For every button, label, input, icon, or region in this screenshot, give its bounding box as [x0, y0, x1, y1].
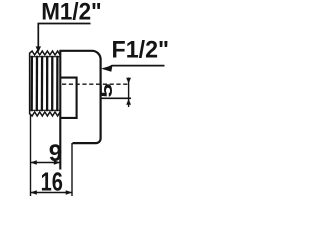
extension line right of 16 dim	[71, 143, 73, 196]
thread root line bottom	[30, 109, 60, 111]
arrowhead of F1/2" leader	[101, 65, 113, 72]
arrowhead right of dim 16	[66, 190, 73, 195]
centerline (dashed)	[62, 83, 130, 85]
thread root line top	[30, 56, 60, 58]
body outline: top edge, rounded top-right corner, right edge, rounded bottom-right corner, bottom edge	[60, 51, 101, 143]
thread flank lines	[32, 56, 58, 111]
arrowhead left of dim 9	[30, 160, 37, 165]
svg-text:F1/2": F1/2"	[112, 37, 170, 64]
dimension line 16	[31, 192, 73, 194]
body left edge / extension line down	[59, 50, 61, 170]
arrowhead of M1/2" leader	[36, 46, 41, 52]
arrowhead top of dim 5	[126, 78, 131, 84]
leader line for M1/2"	[38, 24, 90, 48]
bore bottom extension line	[101, 97, 131, 99]
dimension line 9	[31, 162, 61, 164]
male thread left end face	[29, 53, 31, 115]
arrowhead right of dim 9	[54, 160, 61, 165]
arrowhead bottom of dim 5	[126, 99, 131, 105]
leader line for F1/2"	[107, 66, 165, 69]
extension line left (thread end face)	[30, 115, 32, 196]
dimension line 5 (vertical)	[128, 78, 130, 108]
thread crest zigzag top	[30, 51, 61, 55]
svg-text:M1/2": M1/2"	[41, 0, 101, 26]
step: shoulder inside body	[60, 78, 76, 118]
arrowhead left of dim 16	[30, 190, 37, 195]
thread crest zigzag bottom	[30, 112, 61, 116]
svg-text:5: 5	[96, 83, 116, 97]
